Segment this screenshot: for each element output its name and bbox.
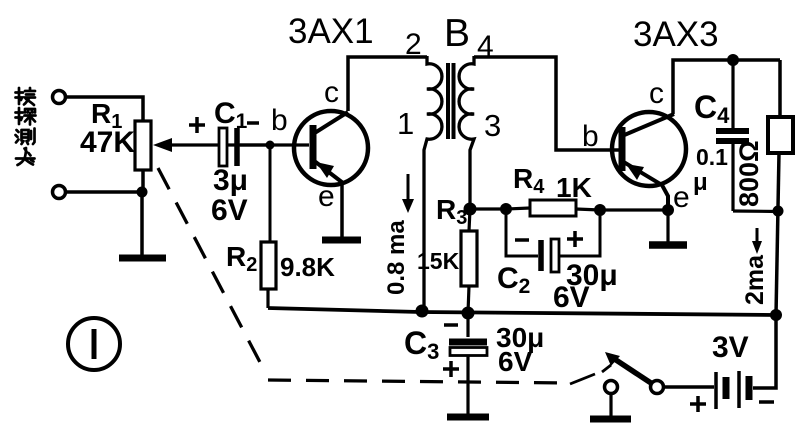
wire: C4 bottom to earphone bottom <box>733 209 778 213</box>
wire: C1 to base of Q1 <box>240 143 309 146</box>
label minus (battery) <box>759 400 774 404</box>
transformer B secondary winding (pins 4-3) <box>459 56 474 205</box>
svg-text:3AX1: 3AX1 <box>288 12 374 51</box>
resistor R3 (15K) <box>461 209 477 313</box>
figure number 1 <box>68 318 120 370</box>
link to switch lever <box>570 365 611 384</box>
svg-text:e: e <box>318 180 335 213</box>
ground (Q2 emitter) <box>649 241 687 249</box>
wire: battery to rail node <box>753 316 776 388</box>
svg-text:800Ω: 800Ω <box>734 140 764 207</box>
node: Q2 emitter junction <box>662 204 674 216</box>
svg-text:0.1: 0.1 <box>696 144 728 170</box>
wire: Q1 emitter down <box>340 183 344 238</box>
battery 3V <box>716 371 749 409</box>
svg-text:C1: C1 <box>214 97 248 133</box>
wire: switch to battery <box>664 385 714 389</box>
switch contact right <box>651 381 664 394</box>
svg-text:R2: R2 <box>226 241 257 276</box>
node: base junction <box>266 141 275 150</box>
ground (Q1 emitter) <box>322 237 361 244</box>
wire: wiper arrow from C1 to R1 <box>153 138 267 152</box>
svg-text:C3: C3 <box>404 325 439 364</box>
node: top right <box>727 54 739 66</box>
wire: bottom rail <box>268 308 776 315</box>
label minus (C2) <box>515 238 529 242</box>
dashed link horizontal <box>268 380 568 383</box>
wire: R3 node to R4 node <box>470 207 506 210</box>
transformer B primary winding (pins 2-1) <box>424 56 442 311</box>
wire: junction down to ground <box>140 192 144 255</box>
label + (C2) <box>567 231 583 247</box>
label + (battery) <box>690 396 706 412</box>
svg-text:c: c <box>649 77 664 110</box>
wire: emitter node to ground <box>666 210 669 242</box>
label minus (C1) <box>247 121 259 125</box>
switch contact left (to ground) <box>605 381 618 394</box>
svg-text:3V: 3V <box>712 331 749 364</box>
node: C4/earphone bottom <box>773 206 784 217</box>
ground (left input) <box>119 255 166 262</box>
svg-text:R4: R4 <box>513 163 545 198</box>
svg-text:c: c <box>324 76 339 109</box>
earphone 800ohm <box>768 60 793 315</box>
label + (C3) <box>443 361 459 377</box>
transistor Q2 3AX3 (PNP) <box>612 112 686 210</box>
capacitor C4 (0.1u) <box>716 60 749 211</box>
node: R4/C2 left <box>500 203 512 215</box>
wire: R2 bottom to bottom rail <box>266 289 269 308</box>
svg-text:6V: 6V <box>498 346 533 377</box>
dashed mechanical link from R1 wiper <box>158 168 263 368</box>
resistor R1 (47K potentiometer) <box>135 121 151 170</box>
wire: Q1 collector up and to transformer pin 2 <box>348 57 427 111</box>
switch lever <box>605 352 654 385</box>
transformer core <box>446 63 456 139</box>
svg-text:47K: 47K <box>80 126 135 159</box>
wire: bottom terminal to junction <box>66 190 142 194</box>
ground (C3) <box>447 414 489 421</box>
svg-text:C2: C2 <box>497 262 530 298</box>
svg-text:2ma: 2ma <box>741 254 769 305</box>
node: R4/C2 right <box>594 204 606 216</box>
svg-text:μ: μ <box>693 169 708 196</box>
svg-text:e: e <box>673 181 690 214</box>
label + (C1 positive) <box>189 117 205 133</box>
node: winding junction (R3 top) <box>464 203 477 216</box>
node: rail / winding 1 <box>416 305 429 318</box>
node: junction at bottom terminal <box>137 187 148 198</box>
svg-text:B: B <box>444 12 470 55</box>
svg-text:1K: 1K <box>556 172 592 203</box>
current arrow 2ma <box>752 228 762 254</box>
svg-text:3AX3: 3AX3 <box>633 15 719 54</box>
node: rail / R3-C3 <box>462 307 475 320</box>
node: rail right <box>770 309 782 321</box>
label: 接探测头 (connect probe head) <box>16 88 36 165</box>
wire: R4 right to Q2 emitter node <box>600 208 668 211</box>
resistor R4 (1K) <box>506 200 600 216</box>
wire: switch contact to ground <box>609 394 612 416</box>
label minus (C3) <box>444 323 458 327</box>
wire: R1 bottom to junction <box>141 170 145 192</box>
node: probe terminal top <box>53 91 66 104</box>
svg-text:15K: 15K <box>417 248 460 274</box>
svg-text:b: b <box>271 104 288 137</box>
capacitor C3 (30u electrolytic) <box>449 313 487 414</box>
svg-text:6V: 6V <box>211 194 248 227</box>
svg-text:C4: C4 <box>694 89 730 128</box>
svg-text:b: b <box>582 120 599 153</box>
ground (switch) <box>590 416 631 423</box>
resistor R2 (9.8K) <box>261 242 276 289</box>
capacitor C2 (30u electrolytic) with wires <box>506 209 600 272</box>
transistor Q1 3AX1 (PNP) <box>294 111 368 185</box>
svg-text:0.8 ma: 0.8 ma <box>383 220 410 295</box>
wire: pin 4 to Q2 base <box>474 57 620 150</box>
capacitor C1 (3u electrolytic) <box>219 128 237 166</box>
svg-text:1: 1 <box>397 106 414 141</box>
wire: Q2 collector to top node and right <box>673 60 780 114</box>
svg-text:2: 2 <box>405 28 422 61</box>
svg-text:6V: 6V <box>553 281 590 314</box>
svg-text:9.8K: 9.8K <box>280 252 335 282</box>
svg-text:3μ: 3μ <box>213 164 248 197</box>
wire: top terminal to R1 top <box>66 97 143 121</box>
node: probe terminal bottom <box>53 186 66 199</box>
svg-text:R3: R3 <box>436 194 467 229</box>
wire: base junction down to R2 <box>269 145 272 242</box>
current arrow 0.8ma <box>402 174 414 213</box>
svg-text:3: 3 <box>484 108 501 143</box>
